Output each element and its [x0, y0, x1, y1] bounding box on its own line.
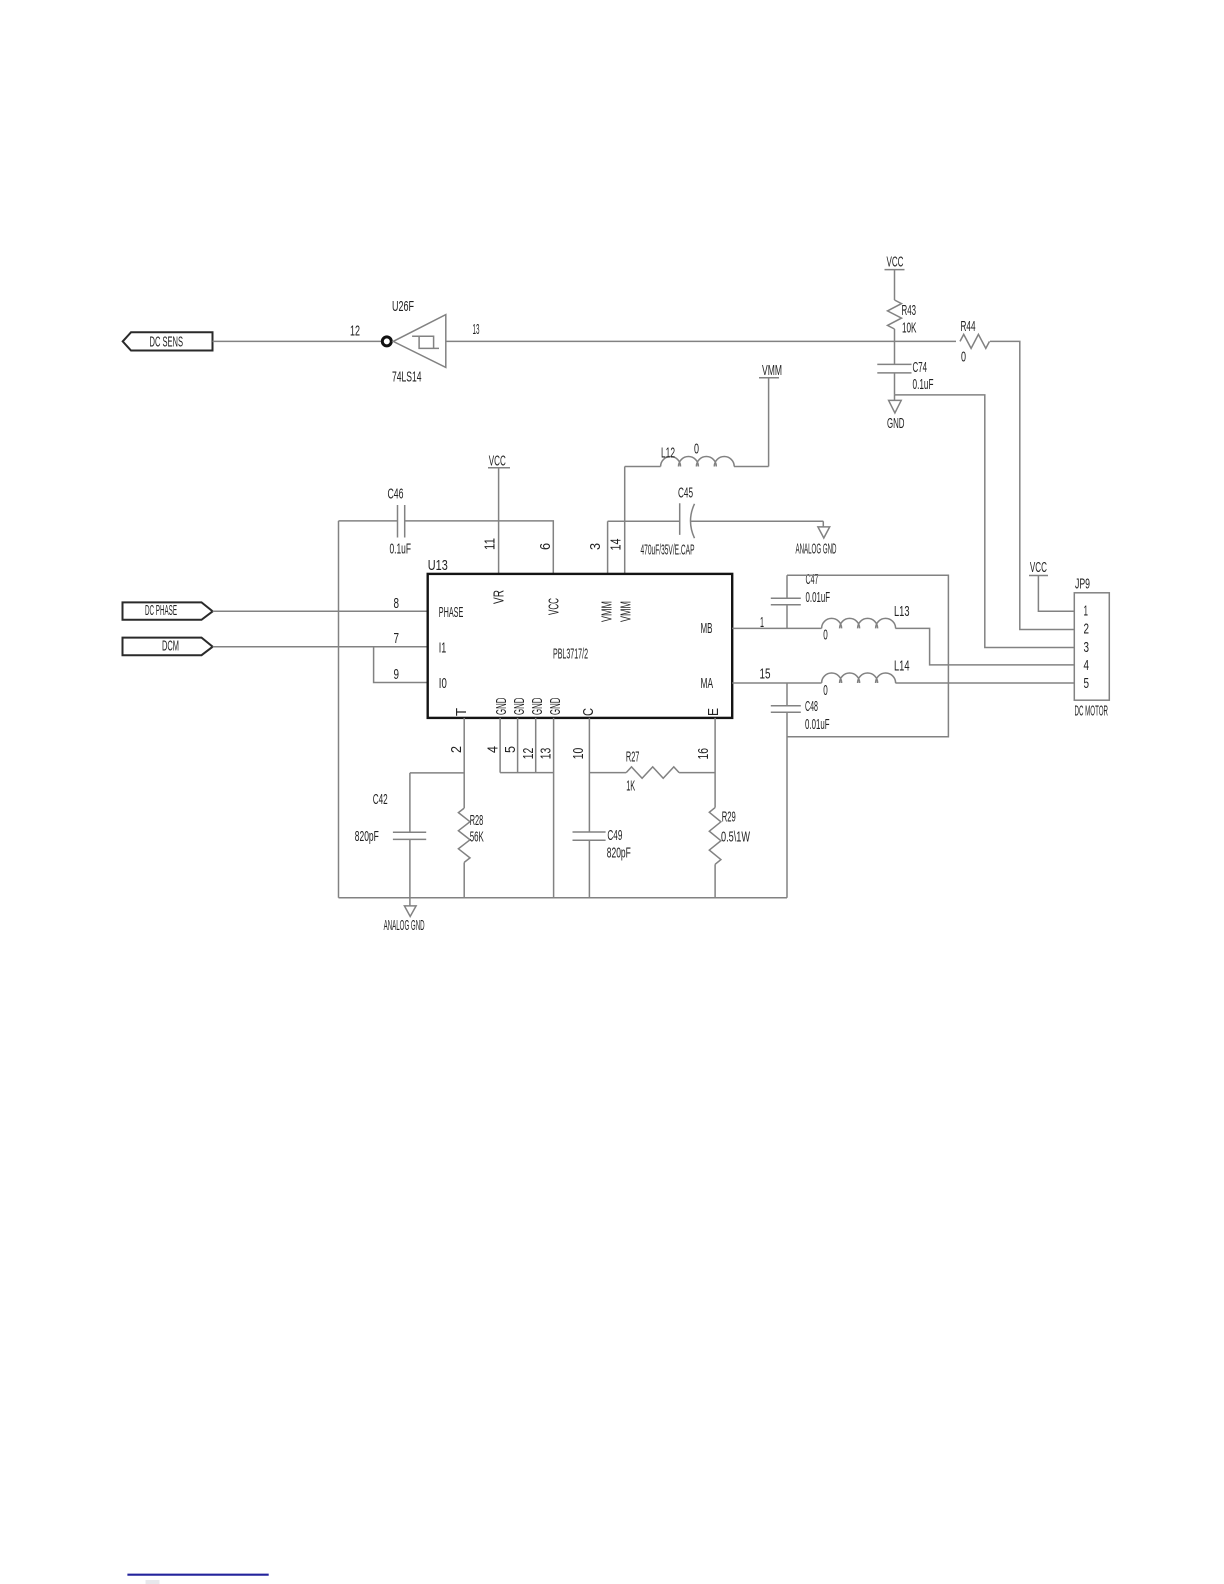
- svg-text:0: 0: [961, 349, 966, 366]
- svg-text:74LS14: 74LS14: [392, 369, 422, 386]
- svg-text:PHASE: PHASE: [439, 604, 464, 621]
- wire T node to C42: [410, 772, 464, 774]
- svg-text:GND: GND: [493, 697, 510, 715]
- capacitor C49: [573, 832, 606, 840]
- svg-text:C74: C74: [913, 359, 928, 376]
- svg-text:L13: L13: [894, 603, 910, 620]
- wire DCM to U13 pin 7: [213, 646, 428, 648]
- svg-text:13: 13: [473, 321, 480, 338]
- wire U13 MB pin 1 to L13: [732, 627, 821, 629]
- svg-text:0: 0: [694, 441, 699, 458]
- wire U13 pin 3 VMM to C45 rail: [607, 521, 609, 574]
- inductor L12: [625, 466, 661, 468]
- svg-text:1K: 1K: [626, 778, 635, 795]
- wire R43 to node: [894, 329, 896, 364]
- svg-text:DC PHASE: DC PHASE: [145, 602, 177, 619]
- svg-text:GND: GND: [547, 697, 564, 715]
- svg-text:15: 15: [760, 666, 771, 683]
- svg-text:GND: GND: [529, 697, 546, 715]
- svg-text:16: 16: [695, 748, 712, 760]
- wire DCM branch to U13 pin 9: [374, 647, 428, 683]
- svg-text:I1: I1: [439, 640, 447, 657]
- svg-text:DCM: DCM: [162, 638, 179, 655]
- wire analog ground rail: [339, 897, 788, 899]
- wire L14 to JP9 pin 5: [895, 682, 1074, 684]
- svg-text:820pF: 820pF: [355, 828, 379, 845]
- svg-text:T: T: [453, 708, 470, 716]
- svg-text:2: 2: [1084, 621, 1090, 638]
- svg-text:0: 0: [823, 627, 828, 644]
- svg-text:6: 6: [537, 543, 554, 550]
- svg-text:MA: MA: [701, 675, 714, 692]
- svg-text:10: 10: [570, 748, 587, 760]
- wire L12 to U13 pin 14 VMM: [624, 467, 626, 574]
- capacitor C48: [771, 683, 801, 898]
- wire R44 to JP9 pin 2: [990, 341, 1074, 629]
- wire U13 C pin 10 down: [588, 718, 590, 898]
- net DC PHASE flag: [123, 602, 213, 619]
- svg-text:0: 0: [823, 682, 828, 699]
- svg-text:VCC: VCC: [546, 598, 563, 615]
- svg-text:JP9: JP9: [1075, 576, 1090, 593]
- svg-text:C47: C47: [806, 571, 819, 588]
- hysteresis symbol: [412, 336, 439, 348]
- svg-text:U13: U13: [428, 557, 448, 574]
- svg-text:ANALOG GND: ANALOG GND: [384, 917, 425, 934]
- svg-text:12: 12: [350, 323, 360, 340]
- svg-text:1: 1: [1084, 603, 1089, 620]
- svg-text:I0: I0: [439, 675, 447, 692]
- inverter U26F triangle 74LS14: [393, 315, 446, 368]
- svg-text:0.1uF: 0.1uF: [913, 376, 934, 393]
- svg-text:MB: MB: [701, 620, 713, 637]
- svg-text:R43: R43: [902, 302, 917, 319]
- capacitor C74: [877, 364, 911, 395]
- svg-text:4: 4: [1084, 657, 1090, 674]
- capacitor C42: [393, 773, 426, 898]
- svg-text:56K: 56K: [470, 829, 484, 846]
- svg-text:0.01uF: 0.01uF: [805, 716, 830, 733]
- svg-text:C42: C42: [373, 791, 388, 808]
- wire C47 C48 sense rails: [787, 575, 948, 737]
- wire U13 GND pins 4 5 12 13: [500, 718, 553, 898]
- wire DC SENS to inverter input bubble: [213, 340, 382, 342]
- svg-text:DC MOTOR: DC MOTOR: [1075, 703, 1109, 720]
- svg-text:L12: L12: [661, 445, 675, 462]
- svg-text:C48: C48: [805, 698, 818, 715]
- svg-text:VCC: VCC: [1030, 559, 1047, 576]
- inductor L13: [822, 618, 896, 628]
- svg-text:0.5\1W: 0.5\1W: [721, 829, 751, 846]
- svg-text:VCC: VCC: [887, 254, 904, 271]
- svg-text:C45: C45: [678, 485, 693, 502]
- inductor L14: [822, 673, 896, 683]
- svg-text:VCC: VCC: [489, 452, 506, 469]
- svg-text:10K: 10K: [902, 320, 917, 337]
- svg-text:C49: C49: [607, 827, 622, 844]
- svg-text:3: 3: [587, 543, 604, 550]
- resistor R29: [709, 808, 721, 865]
- svg-text:R28: R28: [470, 812, 484, 829]
- wire C74 node to JP9 pin 3: [895, 395, 1075, 648]
- svg-text:4: 4: [485, 746, 502, 753]
- svg-text:ANALOG GND: ANALOG GND: [796, 541, 837, 558]
- svg-text:GND: GND: [511, 697, 528, 715]
- svg-text:VMM: VMM: [599, 601, 616, 622]
- svg-text:C46: C46: [388, 485, 404, 502]
- svg-text:VR: VR: [491, 590, 508, 604]
- svg-text:DC SENS: DC SENS: [150, 334, 184, 351]
- svg-text:3: 3: [1084, 639, 1090, 656]
- resistor R43: [888, 300, 902, 329]
- capacitor C47: [771, 575, 801, 628]
- svg-text:11: 11: [482, 538, 499, 550]
- ground GND symbol: [889, 395, 902, 413]
- svg-text:9: 9: [394, 666, 400, 683]
- svg-text:5: 5: [502, 746, 519, 753]
- net DC SENS flag: [123, 332, 213, 350]
- resistor R44: [960, 334, 990, 348]
- svg-text:VMM: VMM: [762, 362, 782, 379]
- svg-text:R44: R44: [961, 318, 976, 335]
- analog ground symbol top: [818, 521, 830, 538]
- net DCM flag: [123, 638, 213, 656]
- op-amp U13 PBL3717/2 body: [428, 574, 733, 718]
- wire DC PHASE to U13 pin 8: [213, 610, 428, 612]
- svg-text:R27: R27: [626, 749, 640, 766]
- svg-text:L14: L14: [894, 658, 910, 675]
- svg-text:E: E: [705, 708, 722, 716]
- wire U13 T pin 2 down: [463, 718, 465, 808]
- svg-text:R29: R29: [722, 809, 736, 826]
- wire U13 MA pin 15 to L14: [732, 682, 821, 684]
- svg-text:PBL3717/2: PBL3717/2: [553, 646, 588, 663]
- svg-text:470uF/35V/E.CAP: 470uF/35V/E.CAP: [641, 542, 695, 559]
- footer smudge: [146, 1580, 160, 1584]
- resistor R27: [589, 772, 626, 774]
- capacitor C46: [339, 505, 554, 574]
- svg-text:2: 2: [448, 746, 465, 753]
- svg-text:14: 14: [608, 539, 625, 551]
- wire left loop to analog ground rail: [338, 521, 340, 898]
- svg-text:12: 12: [520, 748, 537, 760]
- svg-text:U26F: U26F: [392, 298, 414, 315]
- wire L13 to JP9 pin 4: [895, 628, 1074, 665]
- analog ground symbol bottom: [404, 898, 416, 917]
- svg-text:8: 8: [394, 595, 400, 612]
- wire inverter output pin 13 to R43/R44 node: [446, 340, 956, 342]
- svg-text:13: 13: [538, 748, 555, 760]
- capacitor C45 electrolytic: [608, 503, 680, 535]
- svg-text:0.1uF: 0.1uF: [390, 540, 412, 557]
- svg-text:1: 1: [760, 614, 764, 631]
- svg-text:820pF: 820pF: [607, 845, 631, 862]
- svg-text:7: 7: [394, 630, 400, 647]
- svg-text:VMM: VMM: [618, 601, 635, 622]
- connector JP9 DC MOTOR: [1074, 593, 1109, 700]
- footer blue rule: [127, 1574, 268, 1576]
- svg-text:0.01uF: 0.01uF: [806, 589, 831, 606]
- svg-text:5: 5: [1084, 675, 1090, 692]
- inverter U26F bubble: [382, 337, 391, 346]
- resistor R28: [458, 808, 470, 862]
- wire U13 E pin 16 down: [714, 718, 716, 808]
- svg-text:GND: GND: [887, 415, 905, 432]
- svg-text:C: C: [580, 708, 597, 716]
